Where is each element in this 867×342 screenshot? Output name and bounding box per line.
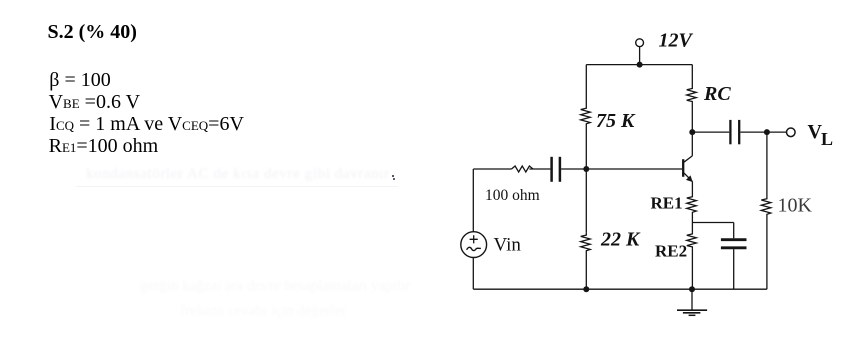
svg-text:L: L — [821, 129, 833, 149]
svg-text:RE1: RE1 — [651, 194, 683, 213]
svg-text:22 K: 22 K — [600, 229, 641, 251]
svg-text:75 K: 75 K — [596, 110, 636, 132]
svg-text:100 ohm: 100 ohm — [485, 187, 540, 204]
svg-text:RE2: RE2 — [655, 242, 687, 261]
svg-text:Vin: Vin — [494, 235, 522, 256]
svg-text:RC: RC — [703, 83, 731, 105]
svg-text:12V: 12V — [659, 30, 694, 52]
svg-text:10K: 10K — [778, 195, 813, 217]
